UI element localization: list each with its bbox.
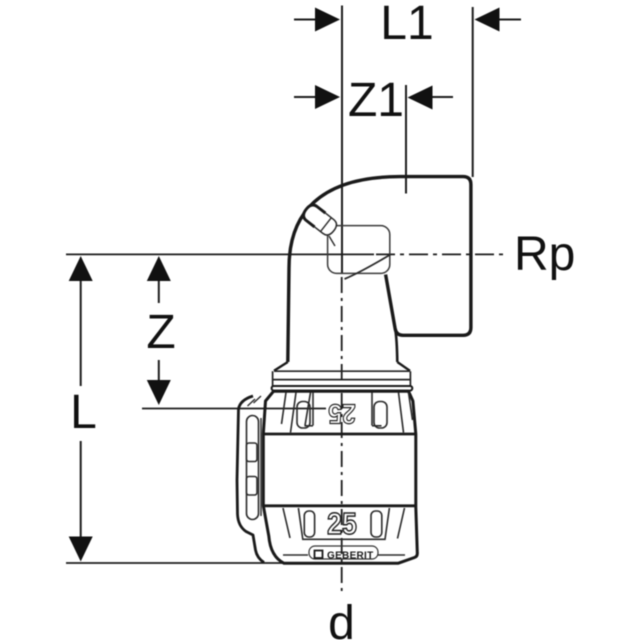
coupling body outline <box>263 391 417 563</box>
leader Z1 right <box>405 85 407 194</box>
svg-text:GEBERIT: GEBERIT <box>327 551 374 562</box>
insertion mark 25 rotated <box>328 398 355 430</box>
horizontal centerline Rp (solid left part) <box>66 254 505 594</box>
clip tab 2 <box>247 477 258 496</box>
svg-text:d: d <box>328 597 355 640</box>
extension line right L1 <box>472 7 474 177</box>
clip inner strip <box>247 416 259 520</box>
L bottom extension line <box>66 562 286 564</box>
svg-text:Z: Z <box>146 306 175 359</box>
L bottom arrow <box>69 537 93 562</box>
boss rounded rect <box>328 226 390 274</box>
clip hatch <box>248 396 262 516</box>
svg-text:Z1: Z1 <box>348 74 404 127</box>
flange flare diagonals <box>274 362 410 371</box>
centerline dash-dot right part <box>376 253 505 255</box>
lower ribs / trapezoid panel <box>283 508 405 555</box>
L dimension line <box>80 280 82 386</box>
L1 left arrow <box>315 8 340 32</box>
GEBERIT band <box>309 546 378 559</box>
size label 25 <box>327 507 357 541</box>
band top edge <box>263 433 416 436</box>
band bottom edge <box>263 504 416 507</box>
Z dimension line <box>158 280 160 303</box>
arrowheads <box>69 8 500 562</box>
svg-text:L1: L1 <box>380 0 433 50</box>
flange thick band <box>272 386 413 391</box>
L top arrow <box>69 256 93 281</box>
elbow outer contour <box>288 177 471 362</box>
dimension extension line left (L1/Z1) <box>81 6 521 539</box>
vertical centerline dash-dot <box>341 277 343 594</box>
svg-text:L: L <box>70 386 97 439</box>
lug on elbow <box>301 202 339 237</box>
flange rings <box>273 371 411 386</box>
Z1 right arrow <box>408 86 433 110</box>
clip tab 1 <box>247 443 258 462</box>
upper ribs <box>282 393 413 433</box>
body top edge <box>274 390 409 392</box>
svg-text:25: 25 <box>328 398 355 430</box>
GEBERIT logo square <box>315 551 323 559</box>
Z bottom arrow <box>147 380 171 405</box>
Z top arrow <box>147 256 171 281</box>
Z bottom extension line <box>142 408 326 410</box>
L1 dimension tails <box>294 19 317 21</box>
svg-text:Rp: Rp <box>514 228 575 281</box>
lug-to-boss line <box>329 236 335 246</box>
svg-text:25: 25 <box>327 507 357 541</box>
inner bore curve <box>345 255 391 280</box>
Z1 dimension tails <box>294 96 317 98</box>
L1 right arrow <box>475 8 500 32</box>
Z1 left arrow <box>315 85 340 109</box>
release clip outer <box>237 396 264 563</box>
pipe right lower edge <box>395 329 397 362</box>
